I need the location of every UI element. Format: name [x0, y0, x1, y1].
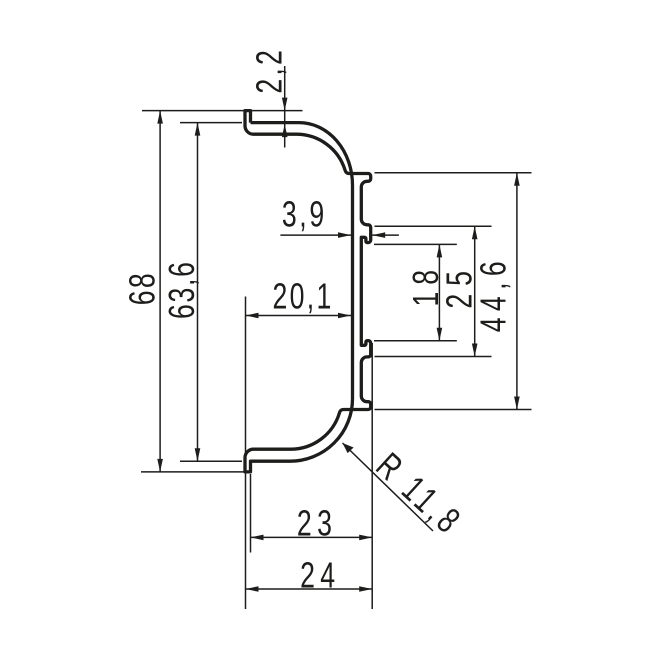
svg-text:44,6: 44,6 [472, 261, 513, 332]
svg-text:20,1: 20,1 [273, 276, 332, 317]
svg-text:2,2: 2,2 [248, 50, 289, 94]
svg-text:63,6: 63,6 [161, 262, 202, 319]
svg-text:3,9: 3,9 [282, 193, 324, 234]
